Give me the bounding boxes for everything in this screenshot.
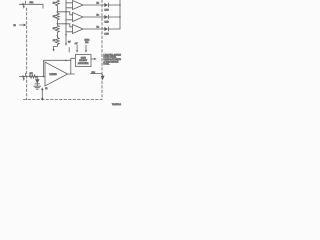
wire rail to U3 - [66,31,73,33]
svg-text:1k: 1k [53,40,56,42]
svg-text:1k: 1k [45,88,47,90]
node ladder tap 3 [57,35,59,37]
LED common bus [119,0,121,29]
node rail stub 1 [65,11,67,13]
node rail stub 3 [65,34,67,36]
wire D1 cathode [108,4,120,6]
wire tap2 to U3 + [57,24,72,27]
svg-text:+V: +V [75,43,78,45]
shield bottom dashed edge [24,99,103,101]
wire U3 output [83,28,104,30]
wire box to meter [91,58,95,60]
wire feedback top [44,60,71,76]
shield left dashed edge [26,8,28,100]
wire box left lead [71,57,76,59]
svg-text:LED: LED [105,34,110,36]
svg-text:10k: 10k [30,2,34,4]
arrow rail to +V [65,43,67,46]
resistor R4 [54,36,60,50]
svg-text:LED: LED [105,22,110,24]
svg-text:2k: 2k [97,26,100,28]
diode D1 [104,3,108,7]
node feedback to input [43,76,45,78]
svg-text:GAIN: GAIN [81,56,86,59]
wire output riser [70,58,72,74]
resistor R3 [56,24,60,36]
node ladder tap 2 [57,23,59,25]
resistor R2 [56,12,60,24]
wire D3 cathode [108,28,120,30]
svg-text:1M: 1M [30,73,33,75]
gain select box U5 [75,55,91,67]
resistor ladder R1 [56,0,60,12]
svg-text:5 CAL: 5 CAL [104,63,111,66]
wire stub left of box [68,48,70,53]
node summing [37,76,39,78]
wire rail to U1 + [66,2,73,4]
svg-text:2k: 2k [97,2,100,4]
op-amp U4 [45,62,68,86]
comparator U1 [73,1,84,10]
output jack J3 [91,74,103,76]
svg-text:2k: 2k [97,14,100,16]
resistor R8 [29,75,36,78]
svg-text:5%: 5% [85,42,88,44]
diode D4 [36,77,38,80]
node bus D1 [119,4,121,6]
svg-text:6V: 6V [68,41,71,43]
arrow ladder to -V [53,49,55,52]
svg-text:IN: IN [14,25,17,27]
shield right dashed edge [101,0,103,100]
arrow into box 2 [85,45,87,50]
signal rail [65,0,67,44]
ground [34,85,41,87]
svg-text:LM308: LM308 [50,74,58,76]
svg-text:LED: LED [105,10,110,12]
wire input to ladder [19,4,43,8]
wire D2 cathode [108,16,120,18]
node IN arrow [20,24,25,26]
input jack J1 [22,3,25,6]
comparator U3 [73,25,84,34]
diode D2 [104,15,108,19]
wire U4 output [68,73,75,75]
svg-text:TL/H/74-2: TL/H/74-2 [112,104,122,106]
node feedback mid [65,60,67,62]
wire U2 output [83,16,104,18]
node bus D2 [119,16,121,18]
arrow into box 1 [76,45,78,50]
svg-text:AMPLIFIER: AMPLIFIER [78,62,89,65]
node ladder tap 1 [57,11,59,13]
node rail stub 2 [65,23,67,25]
chassis bond arrow [41,90,43,99]
wire rail to U1 - [66,7,73,9]
wire tap1 to U2 + [57,12,72,15]
diode D3 [104,27,108,31]
wire U1 output [83,4,104,6]
wire rail to U2 - [66,19,73,21]
input jack J2 [22,75,25,78]
svg-text:SELECT: SELECT [79,60,88,62]
comparator U2 [73,13,84,22]
wire input to U4 [19,76,45,78]
